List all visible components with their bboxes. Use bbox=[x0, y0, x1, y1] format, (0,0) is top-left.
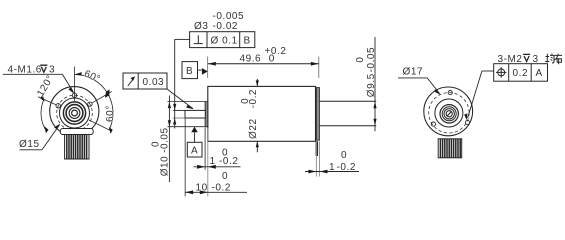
rings bbox=[446, 111, 452, 117]
svg-text:3: 3 bbox=[49, 65, 55, 76]
extension line -26deg bbox=[89, 120, 112, 131]
center line vertical bbox=[74, 67, 76, 102]
shaft dia3 bbox=[185, 110, 205, 118]
dia3 extension stubs bbox=[173, 109, 185, 111]
svg-text:60°: 60° bbox=[105, 105, 116, 122]
svg-text:Ø9.5: Ø9.5 bbox=[366, 73, 377, 97]
svg-text:0: 0 bbox=[150, 141, 161, 147]
dim arc 60 right bbox=[108, 94, 113, 130]
svg-text:0: 0 bbox=[341, 150, 347, 161]
svg-text:A: A bbox=[536, 68, 543, 79]
svg-text:10: 10 bbox=[196, 183, 208, 194]
left step bar (gray) bbox=[205, 102, 208, 127]
svg-text:4-M1.6: 4-M1.6 bbox=[8, 65, 42, 76]
screw hole top bbox=[448, 91, 452, 95]
body rectangle bbox=[208, 86, 316, 141]
feature control frame perpendicularity bbox=[190, 32, 255, 48]
screw slot slash bbox=[447, 111, 452, 116]
dim 1 -0.2 left bbox=[204, 128, 206, 170]
screw hole right bbox=[88, 102, 92, 106]
svg-text:B: B bbox=[244, 36, 251, 47]
svg-text:1: 1 bbox=[210, 156, 216, 167]
svg-text:3-M2: 3-M2 bbox=[498, 54, 523, 65]
screw hole left bbox=[56, 104, 60, 108]
dia10 dimension bbox=[168, 96, 170, 183]
svg-text:0: 0 bbox=[355, 56, 366, 62]
dim arc 120 left bbox=[41, 99, 45, 129]
connector hatched block bbox=[438, 139, 462, 158]
leader to frame position tolerance bbox=[482, 70, 494, 72]
dim 10 -0.2 bbox=[184, 119, 186, 197]
right step bar (gray) bbox=[316, 88, 319, 141]
body outer circle bbox=[50, 87, 99, 136]
svg-text:0: 0 bbox=[269, 54, 275, 65]
extension line 30deg bbox=[92, 92, 111, 103]
arc arrowheads bbox=[75, 72, 82, 75]
dia22 dimension bbox=[256, 79, 258, 86]
dia9.5 dimension bbox=[374, 37, 376, 131]
svg-text:0: 0 bbox=[240, 98, 251, 104]
frame position 0.2 A bbox=[494, 64, 548, 81]
dim 49.6 bbox=[207, 57, 209, 79]
svg-text:Ø3: Ø3 bbox=[194, 21, 208, 32]
svg-text:Ø10: Ø10 bbox=[160, 156, 171, 177]
right step edge extension (dark) bbox=[316, 141, 319, 156]
svg-text:0.03: 0.03 bbox=[143, 77, 165, 88]
connector hatched block bbox=[65, 135, 89, 160]
svg-text:Ø22: Ø22 bbox=[248, 118, 259, 139]
screw hole right bbox=[465, 120, 469, 124]
svg-text:Ø 0.1: Ø 0.1 bbox=[211, 36, 238, 47]
svg-text:Ø15: Ø15 bbox=[19, 139, 40, 150]
extension line 156deg bbox=[38, 97, 56, 105]
svg-text:A: A bbox=[191, 145, 198, 156]
svg-text:-0.2: -0.2 bbox=[337, 162, 356, 173]
boss circle bbox=[435, 99, 463, 127]
chinese char bu bbox=[555, 54, 563, 65]
shaft rings bbox=[72, 110, 78, 116]
svg-text:0: 0 bbox=[222, 148, 228, 159]
dim arc 60 top bbox=[75, 75, 108, 94]
screw hole left bbox=[431, 122, 435, 126]
svg-text:0: 0 bbox=[222, 171, 228, 182]
runout flag 0.03 bbox=[123, 73, 167, 89]
screw hole top bbox=[72, 93, 76, 97]
depth symbol bbox=[40, 65, 47, 72]
bolt circle dashed bbox=[429, 93, 469, 133]
screw hole bottom bbox=[69, 128, 73, 132]
svg-text:-0.02: -0.02 bbox=[213, 21, 239, 32]
datum A bbox=[191, 127, 198, 133]
svg-text:-0.2: -0.2 bbox=[212, 183, 231, 194]
boss circle bbox=[60, 98, 90, 128]
svg-text:49.6: 49.6 bbox=[240, 54, 262, 65]
bolt circle (dashed) bbox=[57, 95, 93, 131]
svg-text:0.2: 0.2 bbox=[513, 68, 529, 79]
svg-text:-0.05: -0.05 bbox=[160, 127, 171, 153]
svg-text:3: 3 bbox=[533, 54, 539, 65]
dim 1 -0.2 right bbox=[315, 142, 317, 177]
datum B bbox=[182, 62, 198, 79]
dia3 dimension line w/ leader to frame bbox=[174, 39, 176, 128]
chinese char jun bbox=[545, 54, 554, 63]
svg-text:Ø17: Ø17 bbox=[403, 67, 424, 78]
svg-text:B: B bbox=[186, 66, 193, 77]
svg-text:-0.05: -0.05 bbox=[366, 47, 377, 73]
rear cylinder dia9.5 bbox=[319, 100, 376, 102]
svg-text:1: 1 bbox=[329, 162, 335, 173]
svg-text:+0.2: +0.2 bbox=[265, 46, 287, 57]
connector cap bbox=[60, 129, 93, 135]
outer circle bbox=[424, 87, 473, 136]
